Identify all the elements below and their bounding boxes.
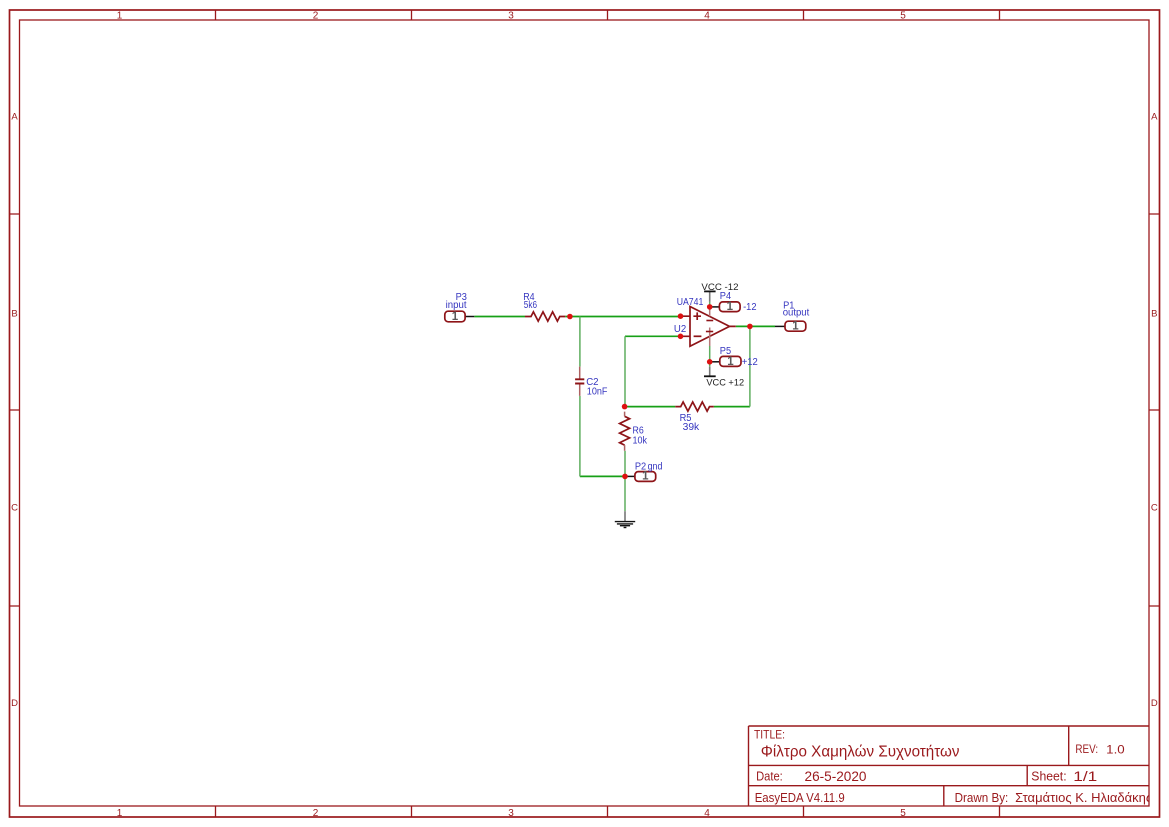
svg-text:3: 3 — [508, 11, 514, 22]
svg-text:D: D — [1151, 698, 1158, 709]
svg-text:39k: 39k — [683, 422, 701, 433]
svg-text:1: 1 — [642, 471, 649, 483]
svg-text:1.0: 1.0 — [1106, 742, 1125, 756]
svg-text:VCC -12: VCC -12 — [701, 282, 738, 293]
svg-text:UA741: UA741 — [677, 297, 704, 308]
svg-text:Φίλτρο Χαμηλών Συχνοτήτων: Φίλτρο Χαμηλών Συχνοτήτων — [761, 744, 960, 761]
svg-text:P5: P5 — [720, 346, 732, 357]
svg-text:D: D — [11, 698, 18, 709]
svg-text:4: 4 — [704, 808, 710, 819]
svg-text:5k6: 5k6 — [524, 300, 538, 311]
svg-text:REV:: REV: — [1075, 744, 1098, 756]
svg-text:1/1: 1/1 — [1073, 769, 1097, 784]
svg-text:10nF: 10nF — [587, 386, 608, 397]
svg-text:5: 5 — [900, 808, 906, 819]
svg-text:1: 1 — [727, 356, 734, 368]
svg-text:gnd: gnd — [648, 461, 663, 472]
svg-text:4: 4 — [704, 11, 710, 22]
svg-text:+12: +12 — [742, 357, 759, 368]
svg-text:1: 1 — [792, 320, 799, 332]
svg-text:1: 1 — [117, 808, 123, 819]
svg-text:EasyEDA V4.11.9: EasyEDA V4.11.9 — [755, 791, 845, 805]
svg-text:P2: P2 — [635, 461, 647, 472]
svg-text:10k: 10k — [633, 436, 648, 447]
svg-text:1: 1 — [727, 301, 734, 313]
svg-text:1: 1 — [452, 311, 459, 323]
svg-text:TITLE:: TITLE: — [754, 728, 785, 742]
svg-text:A: A — [1151, 111, 1158, 122]
svg-text:C: C — [11, 503, 18, 514]
svg-text:2: 2 — [313, 11, 319, 22]
svg-text:VCC +12: VCC +12 — [706, 377, 744, 388]
svg-text:2: 2 — [313, 808, 319, 819]
svg-text:Σταμάτιος Κ. Ηλιαδάκης: Σταμάτιος Κ. Ηλιαδάκης — [1015, 791, 1152, 805]
svg-text:B: B — [1151, 308, 1157, 319]
svg-text:C: C — [1151, 503, 1158, 514]
svg-text:Date:: Date: — [756, 770, 783, 784]
svg-text:-12: -12 — [743, 302, 757, 313]
svg-text:5: 5 — [900, 11, 906, 22]
svg-text:output: output — [783, 308, 810, 319]
svg-text:B: B — [11, 308, 17, 319]
svg-text:Sheet:: Sheet: — [1031, 770, 1066, 784]
svg-text:U2: U2 — [674, 324, 687, 335]
svg-text:input: input — [446, 300, 467, 311]
svg-text:A: A — [11, 111, 18, 122]
svg-text:Drawn By:: Drawn By: — [955, 791, 1009, 805]
svg-text:26-5-2020: 26-5-2020 — [805, 768, 867, 784]
svg-text:3: 3 — [508, 808, 514, 819]
svg-text:1: 1 — [117, 11, 123, 22]
